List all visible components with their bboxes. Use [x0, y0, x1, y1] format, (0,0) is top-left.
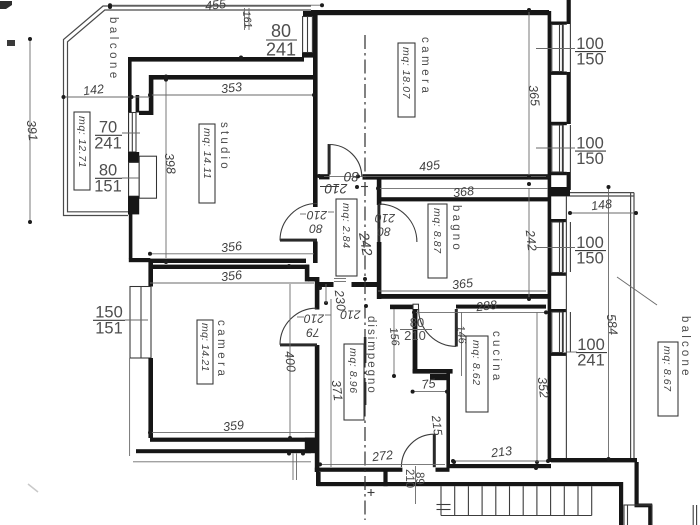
- mq box cucina: [466, 336, 488, 412]
- svg-text:150: 150: [576, 51, 604, 69]
- dim 371 line: [330, 299, 332, 467]
- wall studio west inner stub: [136, 95, 140, 113]
- svg-text:cucina: cucina: [490, 331, 502, 383]
- window W6 studio west 80/151: [129, 162, 140, 196]
- dim 75 line: [413, 391, 447, 393]
- svg-text:584: 584: [604, 313, 620, 335]
- balcone east railing east double: [630, 193, 632, 458]
- wall camera-SW west below window: [148, 358, 153, 438]
- wall camera-SW east lower / disimpegno west: [315, 345, 320, 472]
- svg-text:mq: 18.07: mq: 18.07: [400, 47, 412, 100]
- wall jog to camera-SW west: [129, 258, 151, 262]
- wall stairs east: [619, 482, 623, 525]
- svg-text:mq: 12.71: mq: 12.71: [76, 116, 88, 168]
- svg-text:balcone: balcone: [107, 17, 119, 82]
- wall SE corner step: [635, 504, 653, 508]
- dim 455 line top: [110, 4, 322, 6]
- balcone east inner west line: [565, 196, 567, 458]
- svg-text:156: 156: [387, 327, 401, 348]
- dim 148 line: [570, 212, 636, 214]
- dim 242 line bagno east: [528, 188, 530, 299]
- section axis dash-dot: [364, 35, 366, 520]
- svg-text:89: 89: [413, 472, 425, 485]
- svg-text:studio: studio: [218, 122, 230, 172]
- svg-text:disimpegno: disimpegno: [365, 316, 377, 395]
- window W7 camera-SW west 150/151: [130, 287, 151, 359]
- door entrance arc: [401, 434, 434, 467]
- wall camera-SW south outer: [136, 449, 311, 453]
- wall camera-NE east outer segment middle: [567, 72, 571, 124]
- door studio leaf: [280, 239, 317, 242]
- balcone top-left railing inner: [68, 10, 312, 212]
- svg-text:400: 400: [282, 350, 298, 372]
- svg-text:151: 151: [95, 320, 123, 338]
- dim 156 line: [393, 309, 395, 376]
- wall studio north: [150, 75, 313, 80]
- door camera-NE arc: [329, 144, 362, 177]
- svg-text:mq: 14.21: mq: 14.21: [199, 323, 211, 372]
- wall corridor south with opening: [316, 282, 334, 287]
- stairs bottom edge: [441, 515, 592, 517]
- faint mark bottom-left: [28, 484, 38, 492]
- wall bagno north: [378, 197, 551, 201]
- svg-text:camera: camera: [419, 37, 431, 96]
- svg-text:391: 391: [24, 119, 40, 141]
- door cucina arc: [419, 309, 457, 347]
- mq box camera NE: [398, 43, 415, 117]
- tick window 150/151: [125, 319, 148, 321]
- svg-text:148: 148: [590, 197, 612, 213]
- svg-text:161: 161: [240, 10, 254, 29]
- mq box ingresso: [336, 199, 357, 276]
- faint outer line below camera-SW: [133, 461, 311, 463]
- wall disimpegno-cucina step vertical: [413, 309, 418, 373]
- svg-text:242: 242: [523, 228, 540, 251]
- svg-text:398: 398: [162, 152, 178, 174]
- svg-text:210: 210: [324, 181, 348, 196]
- door camera-SW leaf: [280, 343, 317, 346]
- window W3 bagno east 100/150: [551, 219, 567, 222]
- door jamb white cucina: [413, 304, 419, 309]
- junction dot below corridor: [364, 304, 368, 308]
- svg-text:80: 80: [271, 21, 291, 41]
- svg-text:352: 352: [535, 376, 551, 398]
- wall studio south: [150, 259, 306, 263]
- balcone top-left railing outer: [64, 6, 312, 216]
- svg-text:80: 80: [309, 222, 323, 236]
- scan artifact top-left corner: [0, 1, 12, 9]
- wall disimpegno south east segment: [436, 468, 450, 472]
- wall cucina north west piece: [390, 305, 413, 310]
- wall west below balcone: [129, 214, 133, 259]
- porch tick: [370, 489, 372, 496]
- door cucina leaf: [455, 309, 458, 347]
- wall camera-NE east outer segment top: [567, 0, 571, 24]
- wall SE corner vertical: [635, 462, 639, 504]
- dim 398 line: [165, 80, 167, 258]
- dim 359 line: [150, 432, 315, 434]
- svg-text:151: 151: [94, 178, 122, 196]
- door studio arc: [280, 204, 317, 241]
- svg-text:272: 272: [370, 448, 393, 465]
- dim 288 line: [414, 311, 546, 313]
- stairs break tick marks: [437, 504, 451, 506]
- wall building south at stairs: [317, 482, 622, 486]
- dim 356 line studio south: [150, 253, 314, 255]
- mq box balcone east: [658, 342, 678, 416]
- svg-text:241: 241: [266, 40, 296, 60]
- svg-text:bagno: bagno: [450, 205, 462, 253]
- svg-text:mq: 8.96: mq: 8.96: [347, 348, 359, 394]
- dim 495 line: [322, 175, 548, 177]
- door entrance leaf: [433, 434, 436, 467]
- svg-text:75: 75: [421, 376, 437, 392]
- wall cucina south: [449, 464, 551, 468]
- svg-text:210: 210: [404, 328, 426, 343]
- wall camera-NE top: [311, 10, 549, 15]
- dim 584 line: [608, 187, 610, 459]
- door bagno arc: [379, 204, 417, 242]
- wall jog at camera top-left corner: [303, 11, 315, 17]
- wall chunk between windows west: [128, 152, 139, 162]
- wall camera-NE east inner face: [548, 11, 552, 190]
- wall cucina north east segment: [456, 305, 546, 309]
- svg-text:371: 371: [329, 379, 345, 401]
- mq box bagno: [428, 204, 447, 278]
- right edge double line SE: [692, 505, 694, 525]
- wall top exterior under balcone: [128, 57, 304, 62]
- svg-text:241: 241: [94, 135, 122, 153]
- svg-text:mq: 2.84: mq: 2.84: [340, 203, 352, 249]
- wall camera-NE south, west segment: [319, 174, 330, 179]
- dim 352 line: [536, 312, 538, 462]
- wall bagno east inner face: [548, 190, 552, 299]
- wall bagno south: [378, 294, 551, 299]
- wall camera-SW east upper: [315, 277, 320, 310]
- mq box balcone top-left: [74, 112, 90, 190]
- wall bagno west upper: [377, 179, 382, 205]
- wall camera west / studio east upper: [313, 15, 318, 207]
- svg-text:356: 356: [220, 268, 242, 284]
- door camera-SW arc: [280, 308, 317, 345]
- svg-text:356: 356: [220, 239, 242, 255]
- wall bagno west lower: [377, 242, 382, 299]
- dim 365 line bagno south: [378, 290, 546, 292]
- window W6 embrasure: [139, 156, 156, 198]
- svg-text:365: 365: [526, 84, 542, 106]
- wall camera-SW west outer thin: [129, 358, 131, 456]
- corner dots: [239, 56, 243, 60]
- window W4 cucina east 100/241 door-window: [551, 309, 567, 312]
- svg-text:368: 368: [452, 184, 474, 200]
- svg-text:mq: 8.62: mq: 8.62: [470, 340, 482, 386]
- dim 400 line: [289, 284, 291, 438]
- wall cucina east inner face: [548, 299, 552, 462]
- wall disimpegno south west segment: [315, 468, 403, 472]
- window W2 camera-NE east 100/150 lower: [551, 122, 567, 125]
- svg-text:balcone: balcone: [679, 316, 691, 379]
- svg-text:210: 210: [304, 312, 325, 326]
- dim 391 line left: [29, 39, 31, 222]
- mq box disimpegno: [344, 344, 364, 420]
- wall disimpegno-cucina step horizontal: [413, 369, 453, 374]
- door D1 balcony-studio 80/241 frame: [303, 17, 313, 53]
- svg-text:210: 210: [375, 211, 396, 225]
- tick window W2: [536, 147, 575, 149]
- dim 353 line: [150, 94, 314, 96]
- svg-text:mq: 8.87: mq: 8.87: [431, 208, 443, 254]
- svg-text:150: 150: [576, 250, 604, 268]
- wall pillar block: [430, 374, 449, 380]
- svg-text:79: 79: [306, 326, 320, 340]
- wall porch west continuation: [316, 472, 321, 486]
- door bagno leaf: [377, 204, 380, 242]
- svg-text:camera: camera: [215, 320, 227, 379]
- wall studio NW corner jog vertical: [149, 75, 154, 115]
- window W5 studio west 70/241: [129, 113, 136, 153]
- wall camera-SW north jog step: [288, 265, 309, 269]
- svg-text:365: 365: [451, 276, 473, 292]
- dim 368 line: [378, 187, 548, 189]
- dim 142 line: [64, 96, 151, 98]
- svg-text:359: 359: [222, 418, 244, 434]
- dim 146 line: [461, 312, 463, 376]
- svg-text:210: 210: [307, 208, 328, 222]
- svg-text:mq: 8.67: mq: 8.67: [661, 346, 673, 392]
- tick window 70/241: [122, 132, 140, 134]
- wall stub above studio balcony door: [302, 52, 314, 57]
- leader line balcone east: [617, 277, 657, 305]
- thin double line below camera-SW wall: [292, 454, 294, 481]
- svg-text:142: 142: [82, 82, 104, 98]
- dim 213 line: [453, 460, 548, 462]
- wall studio NW corner jog horizontal: [139, 111, 153, 115]
- wall camera-NE east outer segment bottom: [567, 172, 571, 190]
- wall camera-SW south inner: [150, 438, 319, 442]
- wall camera-SW north: [149, 265, 291, 269]
- svg-text:353: 353: [220, 80, 242, 96]
- window W1 camera-NE east 100/150 upper: [551, 22, 567, 25]
- tick window W3: [536, 247, 575, 249]
- svg-text:495: 495: [418, 158, 440, 174]
- dim 161 extension lines: [244, 8, 246, 30]
- balcone east railing north: [570, 192, 634, 194]
- dots on outer south wall: [287, 452, 291, 456]
- wall chunk below window W6: [128, 196, 139, 214]
- tick window W1: [536, 48, 575, 50]
- dim 365 line camera east: [528, 10, 530, 177]
- tick window 80/151: [122, 177, 140, 179]
- stairs treads: [440, 486, 442, 515]
- mq box studio: [199, 124, 215, 203]
- axis emphasis bars beside disimpegno box: [364, 337, 367, 363]
- wall stub left of entrance porch: [383, 469, 387, 486]
- svg-text:213: 213: [489, 444, 512, 461]
- svg-text:288: 288: [474, 298, 497, 315]
- svg-text:241: 241: [577, 352, 605, 370]
- dim 230 tick marks: [334, 278, 346, 280]
- dim 356 line camera north: [150, 282, 314, 284]
- svg-text:80: 80: [377, 225, 391, 239]
- wall camera-NE south, east segment: [363, 174, 549, 179]
- wall cucina west: [446, 372, 450, 468]
- dim 272 line: [320, 463, 445, 465]
- landing rect SE outside: [624, 505, 652, 525]
- wall block bagno NE corner: [548, 187, 570, 196]
- wall balcone-east south: [551, 458, 637, 462]
- short line near camera-SW door dim: [325, 284, 327, 303]
- svg-text:210: 210: [340, 308, 361, 322]
- svg-text:215: 215: [429, 414, 445, 437]
- svg-text:mq: 14.11: mq: 14.11: [201, 128, 213, 179]
- mq box camera SW: [197, 320, 213, 384]
- wall camera-SW west upper: [148, 262, 153, 287]
- wall studio west outer face: [128, 57, 132, 215]
- door camera-NE leaf: [328, 144, 331, 175]
- tick window W4: [567, 351, 577, 353]
- wall studio east lower below door: [313, 242, 318, 264]
- outer strip lines across east windows: [562, 24, 564, 72]
- svg-text:150: 150: [576, 150, 604, 168]
